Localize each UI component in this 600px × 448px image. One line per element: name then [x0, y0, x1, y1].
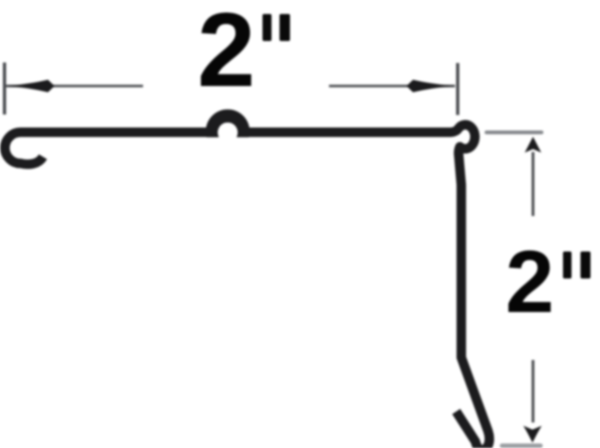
svg-text:2: 2: [197, 0, 255, 109]
right arrowhead: [407, 80, 456, 92]
horizontal dimension line segment left: [6, 85, 143, 88]
stiffening bump rib: [206, 109, 250, 137]
left arrowhead: [6, 80, 55, 92]
right extension bar top: [487, 130, 542, 134]
right extension bar bottom: [502, 444, 541, 448]
drip edge profile outline: [5, 125, 489, 448]
right label inch mark bar 2: [581, 252, 591, 279]
vertical dimension line segment bottom: [532, 360, 535, 423]
top label inch mark bar 1: [263, 14, 272, 41]
up arrowhead: [525, 137, 542, 153]
vertical dimension line segment top: [532, 152, 535, 216]
horizontal dimension line segment right: [329, 85, 455, 88]
extension line left tick: [3, 63, 6, 115]
svg-text:2: 2: [505, 233, 554, 331]
top label inch mark bar 2: [280, 14, 291, 41]
extension line right tick: [456, 63, 459, 115]
right label inch mark bar 1: [563, 252, 572, 279]
down arrowhead: [523, 426, 541, 443]
